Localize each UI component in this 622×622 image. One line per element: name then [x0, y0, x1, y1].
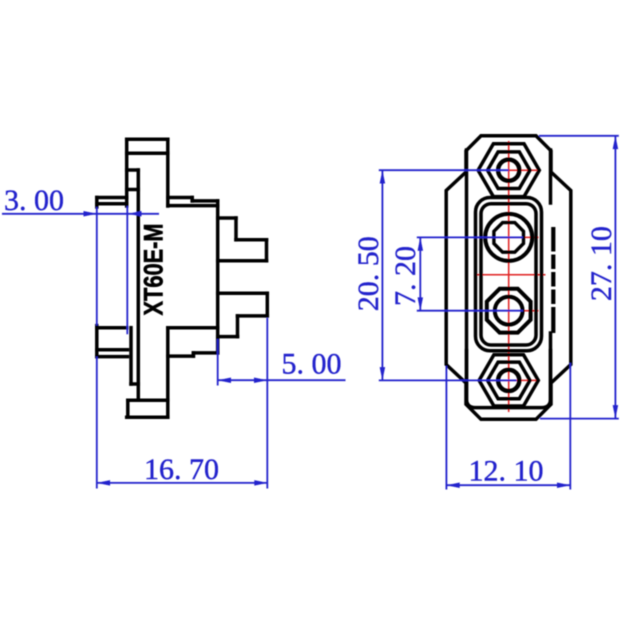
svg-text:XT60E-M: XT60E-M — [139, 224, 169, 316]
svg-text:12. 10: 12. 10 — [469, 455, 544, 488]
svg-text:7. 20: 7. 20 — [389, 246, 422, 306]
svg-text:16. 70: 16. 70 — [144, 453, 219, 486]
svg-text:3. 00: 3. 00 — [4, 184, 64, 217]
svg-text:27. 10: 27. 10 — [585, 226, 618, 301]
svg-text:5. 00: 5. 00 — [282, 347, 342, 380]
svg-text:20. 50: 20. 50 — [352, 236, 385, 311]
